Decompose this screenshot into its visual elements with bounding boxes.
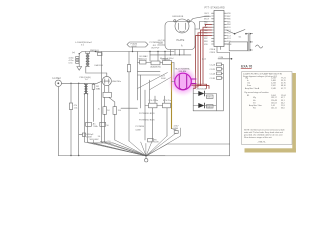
svg-text:1.5k: 1.5k [74, 108, 78, 110]
svg-text:BO MAC: BO MAC [140, 55, 149, 58]
svg-text:J-0 (7-0): J-0 (7-0) [158, 40, 166, 42]
label V3 [175, 67, 190, 73]
svg-text:OUTPUT: OUTPUT [151, 47, 160, 49]
svg-text:RB6: RB6 [227, 19, 231, 21]
label POTENSI0 B2 [139, 113, 155, 122]
switch S1 [227, 30, 249, 39]
svg-text:RB3: RB3 [204, 41, 208, 43]
transformer T1 interstage with label [75, 42, 93, 73]
wire highlighted olive net [171, 63, 173, 129]
svg-text:T-4: T-4 [85, 79, 89, 81]
wire socket to IC [195, 22, 211, 30]
tube V1 input triode [102, 73, 122, 86]
wire diagonal feeds to V3 [138, 73, 171, 90]
capacitor C1 4700pF [79, 133, 101, 139]
svg-text:B1: B1 [247, 95, 249, 97]
wire V3 left to olive [172, 81, 175, 83]
svg-text:101,11: 101,11 [271, 108, 277, 110]
label KIA 2030 [95, 64, 104, 67]
svg-text:Vct: Vct [253, 101, 256, 104]
svg-text:30cm between stages of this un: 30cm between stages of this unit. [244, 136, 273, 139]
note text rows [244, 77, 286, 109]
diode pair D1 [193, 88, 216, 110]
label BO MAC [140, 55, 149, 58]
svg-text:KIA 2030: KIA 2030 [95, 64, 104, 67]
svg-text:COM: COM [219, 57, 224, 59]
wire y108 link [121, 107, 138, 109]
capacitor C2 row [139, 59, 148, 64]
svg-text:+500V: +500V [131, 46, 138, 48]
wire U1 bottom [202, 47, 232, 61]
label 4.7k2 [163, 100, 172, 102]
connector P1 [248, 33, 252, 51]
svg-text:POTENS: POTENS [136, 126, 145, 128]
svg-text:Lin Rad: Lin Rad [53, 78, 62, 80]
ground GND1 [77, 64, 82, 70]
svg-text:VSS: VSS [204, 44, 208, 46]
svg-text:S1: S1 [239, 37, 242, 39]
U1 left pins with labels [204, 13, 214, 46]
AC source symbol [256, 45, 263, 48]
svg-text:33,0: 33,0 [281, 108, 285, 110]
svg-text:1K: 1K [107, 110, 110, 112]
svg-text:PLATE: PLATE [177, 39, 185, 42]
svg-text:(2-0): (2-0) [159, 43, 163, 45]
component PD 500K near ground [148, 139, 160, 144]
svg-text:1,562: 1,562 [271, 85, 276, 87]
IC U1 PT7-STANDARD [205, 7, 226, 47]
tube V3 highlighted lamp glow [167, 66, 199, 98]
svg-text:Amp filter 3 bar: Amp filter 3 bar [249, 104, 262, 107]
svg-text:KIA 230x: KIA 230x [112, 80, 122, 83]
wire tube to IC pin1 [189, 16, 211, 22]
svg-text:500K: 500K [161, 78, 166, 80]
svg-text:Mounted 2/2uf: Mounted 2/2uf [160, 57, 174, 60]
svg-text:RC3: RC3 [227, 35, 231, 37]
wire ground return loop [147, 144, 230, 156]
wire branch x78.7 to bus [78, 83, 79, 156]
node callout PLA30 +500V [127, 42, 148, 52]
resistor R13 1K [98, 97, 111, 142]
svg-text:LA30(BOM): LA30(BOM) [150, 65, 161, 68]
svg-text:0-BM: 0-BM [136, 130, 141, 132]
svg-text:C2M B: C2M B [210, 52, 216, 54]
wire bottom of T1 [86, 72, 107, 74]
svg-text:C2M A: C2M A [210, 48, 216, 51]
svg-text:L-10003(W 60m2: L-10003(W 60m2 [75, 42, 93, 44]
resistor R14 150 [109, 97, 122, 140]
svg-text:1,948: 1,948 [271, 88, 276, 90]
svg-text:Amp filter 2 barA: Amp filter 2 barA [245, 87, 260, 90]
svg-text:50: 50 [106, 125, 109, 127]
label J-0 pins [158, 40, 166, 45]
svg-text:Cfg second stage w/ baseline: Cfg second stage w/ baseline [244, 91, 269, 94]
svg-text:C1-3A: C1-3A [210, 72, 216, 75]
svg-text:VDD: VDD [227, 13, 231, 15]
note EXA 76 box [241, 64, 292, 144]
label POTENSI0 B1 [150, 42, 164, 49]
svg-text:OSC1: OSC1 [204, 13, 209, 15]
svg-text:41,77: 41,77 [281, 88, 286, 90]
svg-text:5:1: 5:1 [81, 45, 85, 47]
svg-text:0.5n: 0.5n [69, 62, 74, 64]
wire mid horizontals [138, 72, 167, 81]
svg-text:- EXA 76 -: - EXA 76 - [258, 140, 267, 143]
svg-text:SUB 1: SUB 1 [207, 97, 212, 99]
svg-text:C1-2B: C1-2B [210, 69, 216, 71]
resistor R9 [145, 103, 163, 108]
svg-text:RA0: RA0 [204, 20, 208, 23]
svg-text:(2-0): (2-0) [202, 58, 206, 60]
wire right vertical net [229, 53, 231, 156]
svg-text:710A: 710A [93, 125, 98, 128]
svg-text:500K: 500K [154, 142, 159, 144]
wire diode block right [193, 94, 223, 111]
svg-text:RC2: RC2 [227, 33, 231, 35]
component BH on bus [96, 52, 102, 56]
node 4.6k7 BRA [172, 126, 180, 134]
svg-text:EM BUIOB: EM BUIOB [173, 16, 184, 18]
diode D2 [193, 103, 216, 108]
U1 right pins with labels [224, 13, 232, 46]
relay box K1 [224, 42, 248, 51]
svg-text:TB-03 KIMERA: TB-03 KIMERA [175, 67, 190, 70]
wire red bundle from U1 to lamp [192, 24, 212, 88]
resistor SUB1 [207, 95, 214, 99]
svg-text:150: 150 [118, 110, 122, 112]
svg-text:C1-3B: C1-3B [210, 78, 216, 80]
wire jack vertical to bottom bus [57, 87, 59, 156]
capacitor C3 [150, 61, 161, 68]
ground GND2 main [145, 155, 148, 162]
tube V2 top view EM BUIOB [173, 16, 190, 33]
svg-text:RB5: RB5 [227, 21, 231, 23]
wire mid verticals [138, 63, 168, 141]
svg-text:OSC2: OSC2 [204, 16, 209, 18]
svg-text:MCLR: MCLR [204, 19, 210, 21]
resistor R10 [163, 103, 171, 108]
svg-text:RC4: RC4 [227, 38, 231, 40]
wire fan diagonals to ground [84, 128, 180, 156]
transformer T2 input with label [80, 77, 91, 142]
note EXA 76 shadow [245, 73, 296, 153]
svg-text:Rst: Rst [253, 107, 256, 110]
label RL [98, 89, 101, 91]
socket box under V1 [103, 86, 111, 98]
svg-text:Sum: Sum [247, 85, 251, 87]
wire main top bus [79, 50, 174, 54]
wire jack to transformer T2 [62, 81, 103, 84]
svg-text:RB4: RB4 [227, 24, 231, 26]
value label 500+500V [90, 139, 100, 141]
svg-text:A: A [181, 45, 183, 48]
svg-text:2.5k 25Ne: 2.5k 25Ne [149, 100, 159, 102]
input jack J1 [53, 78, 62, 87]
svg-text:(w): (w) [72, 52, 75, 54]
capacitor C4 [162, 59, 172, 65]
resistor R11 plate feed [127, 52, 130, 142]
tube socket unit box with PLATE [165, 22, 195, 55]
svg-text:RB7: RB7 [227, 16, 231, 18]
svg-text:50: 50 [98, 136, 101, 138]
note header row [243, 73, 282, 78]
wire component row [138, 52, 175, 80]
svg-text:PT7-STANDARD: PT7-STANDARD [205, 7, 226, 10]
svg-text:200-BM: 200-BM [179, 71, 187, 73]
wire y142.9 [90, 143, 145, 155]
svg-text:68,10: 68,10 [281, 85, 286, 87]
note bottom paragraph [244, 129, 285, 144]
svg-text:JC: JC [98, 108, 101, 110]
resistor stack R2 R3 R4 with values [69, 52, 80, 65]
bottom bus wire [58, 155, 165, 157]
label 2N 25Ne [149, 100, 159, 102]
label mounted rail [100, 140, 111, 143]
svg-text:RB2: RB2 [204, 38, 208, 40]
resistor R12 [92, 83, 100, 121]
svg-text:RC0: RC0 [227, 27, 231, 29]
header pins J2 below U1 [210, 63, 224, 111]
resistor R8 [100, 122, 110, 127]
resistor SUB2 [207, 105, 214, 109]
resistor R7 [86, 122, 98, 128]
wire under socket [150, 54, 191, 55]
svg-text:500-500V: 500-500V [90, 139, 100, 141]
svg-text:RL: RL [98, 89, 101, 91]
svg-text:C1-2A: C1-2A [210, 63, 216, 66]
svg-text:EXA 76: EXA 76 [241, 64, 252, 68]
resistor R5 47k [69, 83, 77, 156]
wire vertical x101.4 bus to input stage [100, 52, 102, 143]
svg-text:SUB 2: SUB 2 [207, 106, 212, 108]
svg-text:2N25052B: 2N25052B [197, 88, 207, 90]
label mounted 2/2uf [160, 57, 174, 60]
label POTENSI lower [136, 126, 145, 131]
